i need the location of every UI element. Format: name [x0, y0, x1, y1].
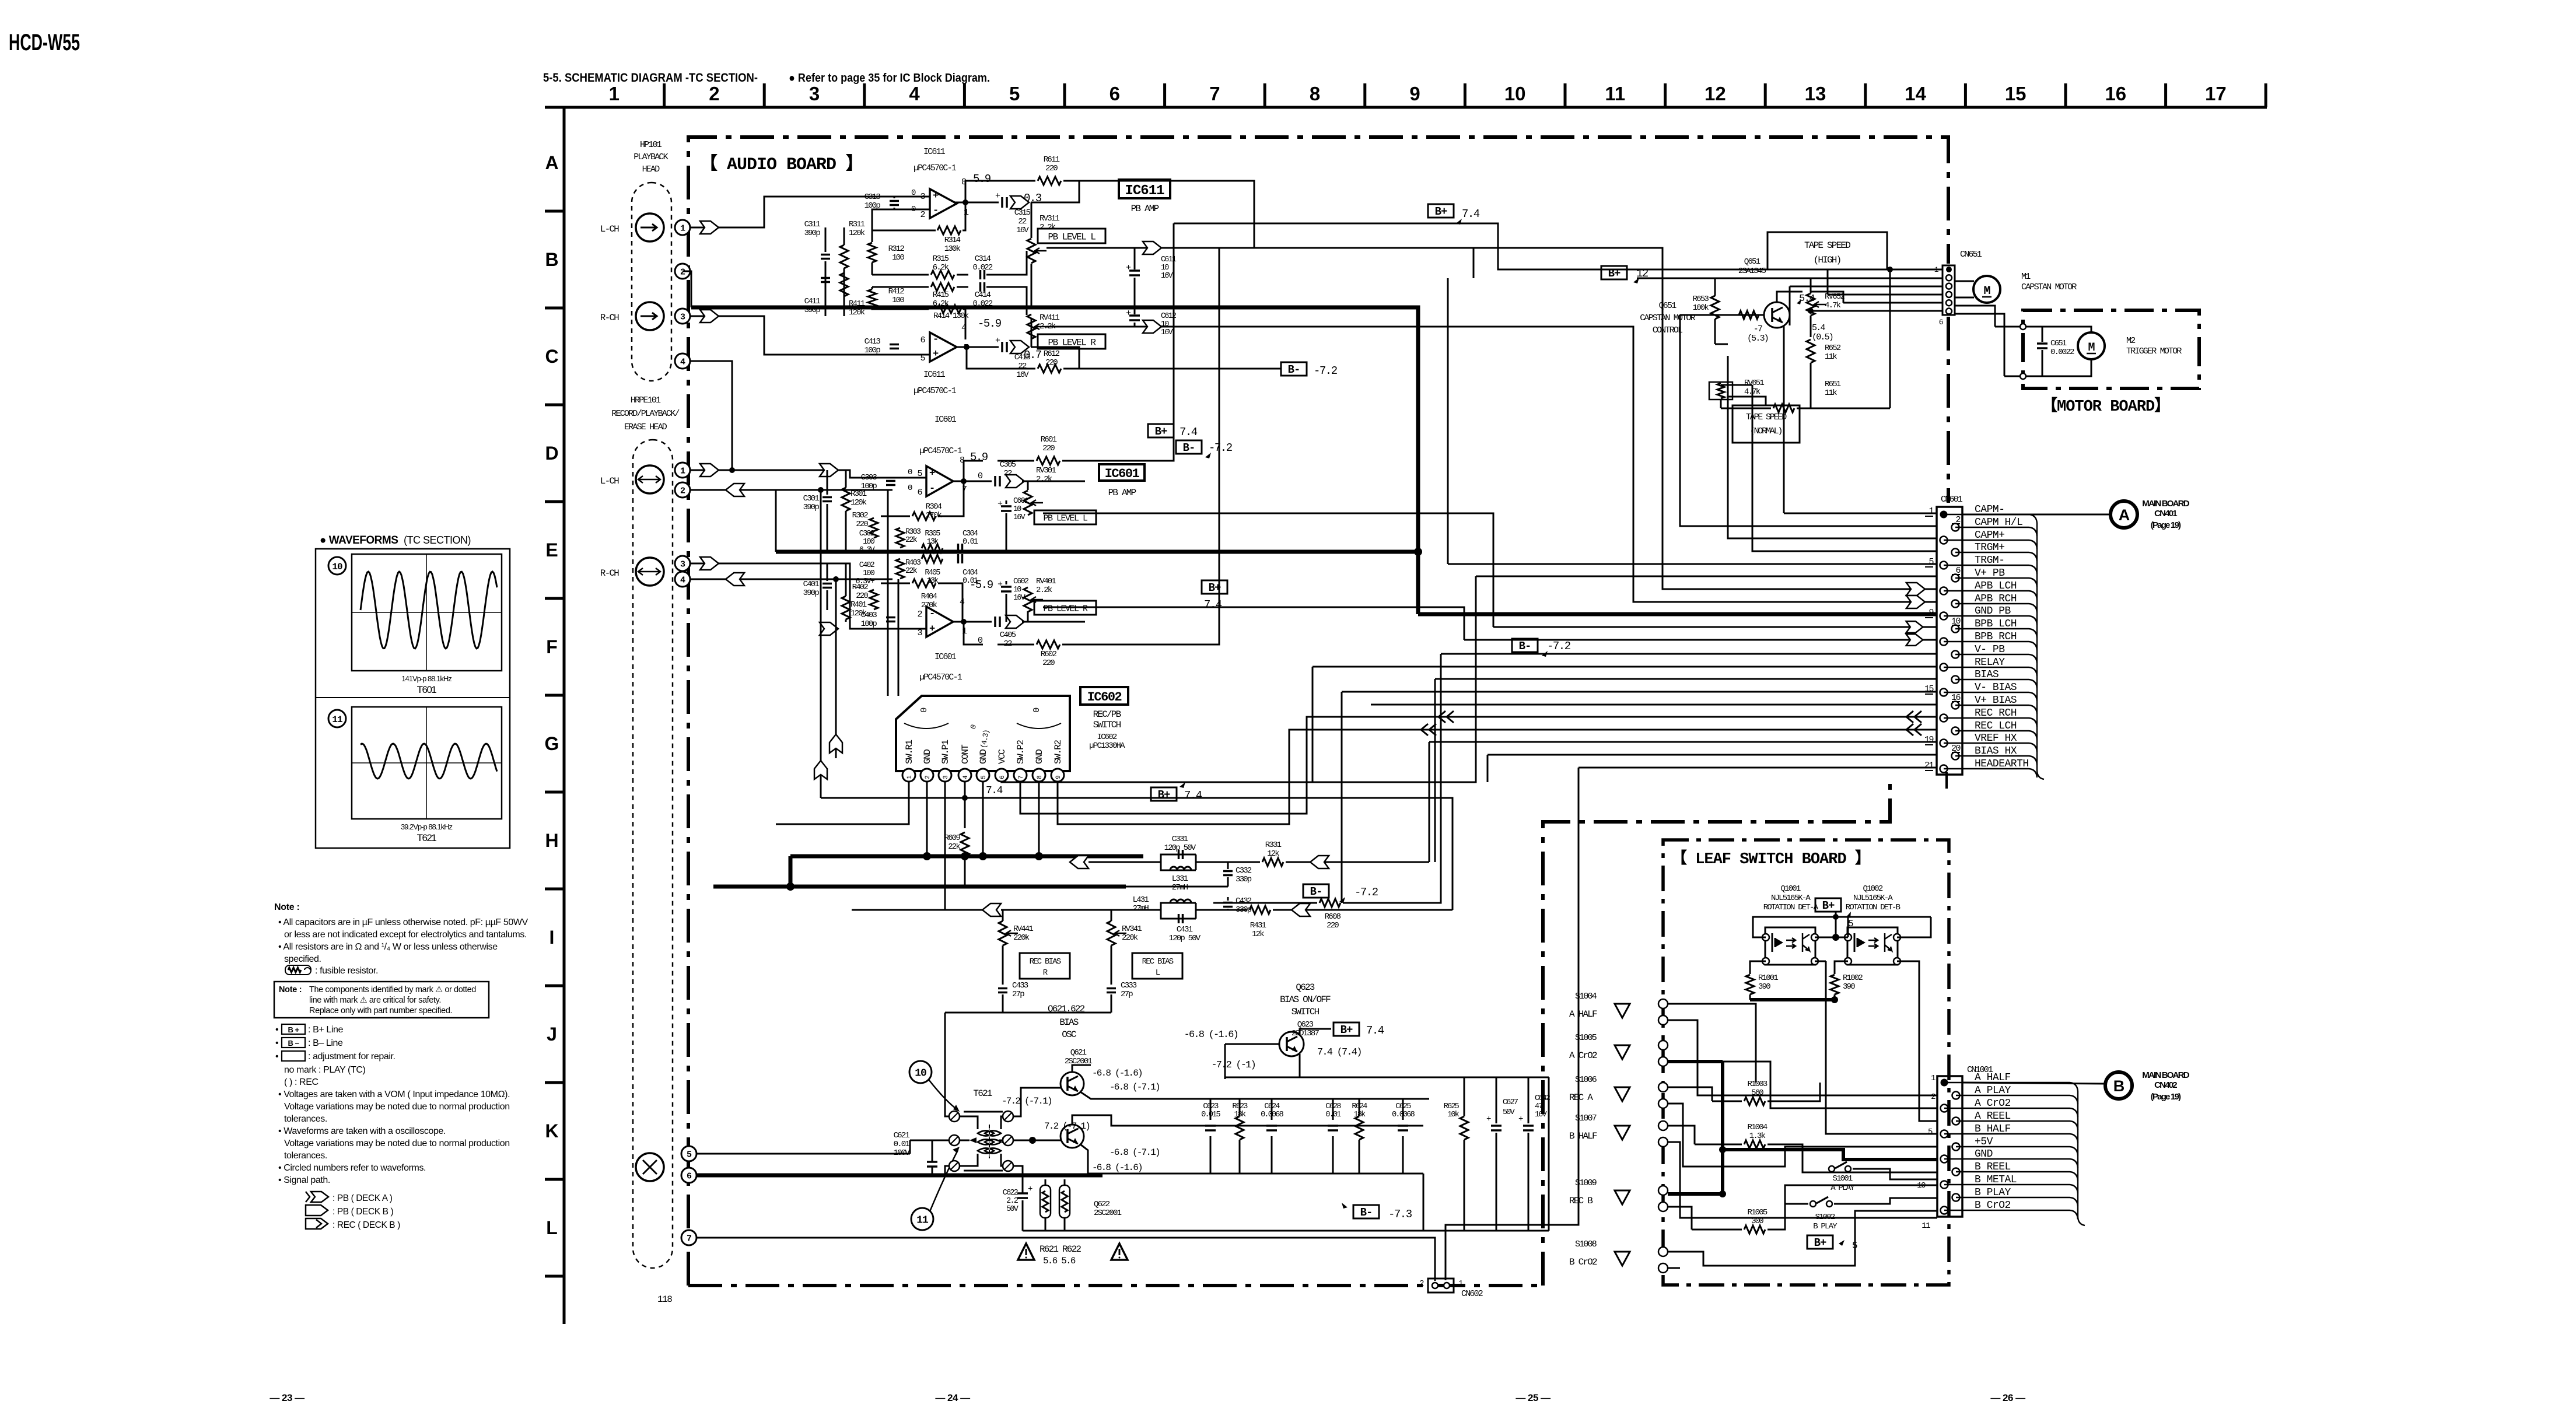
- connector CN1001 pins and labels: [1941, 1079, 1948, 1087]
- svg-text:L-CH: L-CH: [600, 476, 619, 486]
- svg-text:【 LEAF SWITCH BOARD 】: 【 LEAF SWITCH BOARD 】: [1671, 849, 1870, 868]
- svg-text:: REC ( DECK B ): : REC ( DECK B ): [332, 1220, 400, 1230]
- svg-text:+: +: [998, 499, 1003, 509]
- resistor R652: [1807, 339, 1815, 363]
- svg-text:S1004: S1004: [1575, 992, 1597, 1001]
- svg-text:10: 10: [1161, 320, 1169, 329]
- svg-text:R414 130k: R414 130k: [933, 311, 969, 321]
- svg-text:tolerances.: tolerances.: [284, 1151, 327, 1161]
- resistor R608: [1213, 902, 1317, 904]
- svg-text:TRIGGER MOTOR: TRIGGER MOTOR: [2126, 346, 2182, 356]
- svg-text:16V: 16V: [1016, 226, 1029, 235]
- potentiometer RV441: [999, 921, 1007, 945]
- resistor R315 capacitor C314 feedback 2: [872, 274, 929, 276]
- signal path symbols: [306, 1192, 328, 1202]
- svg-text:0.01: 0.01: [963, 538, 978, 547]
- capacitor C315: [1001, 197, 1003, 208]
- Q622 wires: [1044, 1140, 1060, 1141]
- svg-text:18k: 18k: [1354, 1111, 1366, 1119]
- waveforms outer box: [316, 549, 510, 848]
- svg-text:+: +: [995, 191, 1000, 201]
- wire R-CH input: [690, 316, 930, 355]
- wires into CN651: [1637, 278, 1943, 279]
- svg-text:220k: 220k: [1122, 933, 1138, 943]
- svg-text:-: -: [933, 205, 939, 216]
- resistor R653: [1711, 296, 1719, 319]
- svg-text:B: B: [545, 249, 558, 270]
- wire RV311 wiper line to APB LCH: [1046, 248, 1937, 589]
- svg-text:4: 4: [680, 357, 685, 367]
- svg-text:C624: C624: [1264, 1102, 1280, 1111]
- svg-text:B+: B+: [1608, 267, 1620, 280]
- svg-text:390p: 390p: [803, 589, 820, 598]
- svg-text:1: 1: [609, 83, 619, 104]
- svg-text:Note :: Note :: [279, 985, 302, 994]
- svg-text:11: 11: [1922, 1221, 1930, 1231]
- svg-text:H: H: [545, 830, 558, 851]
- signal arrow L-CH IC601: [700, 464, 719, 477]
- svg-text:15: 15: [2005, 83, 2027, 104]
- svg-text:SW.P1: SW.P1: [940, 740, 951, 764]
- svg-text:L431: L431: [1133, 895, 1149, 905]
- svg-text:390: 390: [1758, 982, 1770, 992]
- svg-text:M2: M2: [2126, 336, 2135, 346]
- svg-text:•: •: [275, 1052, 278, 1062]
- resistor R404: [881, 583, 910, 584]
- PB LEVEL R box IC601: [1034, 601, 1096, 615]
- svg-text:10: 10: [915, 1067, 926, 1079]
- svg-text:220: 220: [856, 591, 868, 601]
- wire R602 bottom loop: [964, 622, 983, 645]
- resistor R331: [1228, 861, 1260, 863]
- svg-text:C402: C402: [859, 561, 875, 570]
- svg-text:47: 47: [1535, 1102, 1543, 1111]
- svg-text:-5.9: -5.9: [978, 317, 1002, 330]
- svg-text:-6.8 (-1.6): -6.8 (-1.6): [1092, 1162, 1142, 1173]
- svg-text:— 25 —: — 25 —: [1515, 1392, 1550, 1403]
- warning triangle right: [1111, 1244, 1128, 1260]
- capacitor C602: [1001, 586, 1012, 588]
- potentiometer RV651: [1709, 382, 1732, 400]
- svg-text:100p: 100p: [861, 619, 877, 629]
- svg-text:B-: B-: [1519, 640, 1531, 653]
- svg-text:6: 6: [999, 776, 1006, 779]
- svg-text:C405: C405: [1000, 631, 1016, 640]
- svg-text:R624: R624: [1352, 1102, 1367, 1111]
- optocoupler Q1002: [1847, 927, 1898, 965]
- svg-text:+: +: [1126, 263, 1131, 273]
- svg-text:A: A: [2119, 506, 2130, 524]
- svg-text:C404: C404: [963, 569, 978, 577]
- svg-text:: adjustment for repair.: : adjustment for repair.: [308, 1052, 395, 1062]
- svg-text:ERASE HEAD: ERASE HEAD: [624, 422, 667, 432]
- svg-text:11: 11: [1605, 83, 1625, 104]
- wire R-CH input IC601: [690, 563, 926, 629]
- capacitor C415: [1001, 342, 1003, 352]
- svg-text:16V: 16V: [1016, 370, 1029, 380]
- capacitor C601: [1001, 505, 1012, 507]
- wire tape speed normal: [1728, 356, 1766, 405]
- svg-text:2: 2: [680, 267, 685, 277]
- svg-text:+: +: [1486, 1115, 1491, 1124]
- capacitor C311: [825, 227, 827, 252]
- svg-text:16V: 16V: [1013, 513, 1026, 522]
- svg-text:1: 1: [680, 466, 685, 476]
- capacitor C403: [886, 617, 895, 619]
- B+ label IC601: [1148, 424, 1174, 437]
- op-amp IC611b: [930, 332, 957, 362]
- capacitor C612: [1129, 314, 1140, 317]
- signal arrow after C405: [1006, 615, 1024, 628]
- svg-text:BIAS: BIAS: [1059, 1017, 1078, 1028]
- svg-text:S1008: S1008: [1575, 1239, 1597, 1249]
- svg-text:-7.3: -7.3: [1388, 1208, 1412, 1221]
- svg-text:130k: 130k: [944, 244, 961, 254]
- svg-text:PB AMP: PB AMP: [1108, 488, 1136, 498]
- svg-text:【MOTOR BOARD】: 【MOTOR BOARD】: [2042, 397, 2169, 416]
- PB LEVEL L box: [1038, 229, 1105, 243]
- svg-text:: B– Line: : B– Line: [308, 1038, 343, 1048]
- resistor R414 feedback: [871, 287, 873, 289]
- wire BIAS HX pin20: [1487, 754, 1937, 756]
- svg-text:R312: R312: [888, 244, 905, 254]
- head HRPE101 pin 7: [681, 1230, 696, 1245]
- svg-text:SW.P2: SW.P2: [1016, 740, 1026, 764]
- svg-text:A HALF: A HALF: [1569, 1009, 1597, 1020]
- svg-text:C303: C303: [861, 473, 877, 482]
- head HP101 pin 4: [675, 353, 690, 369]
- svg-text:RV651: RV651: [1744, 379, 1764, 388]
- svg-text:-7.2: -7.2: [1354, 886, 1378, 899]
- svg-text:-6.8 (-7.1): -6.8 (-7.1): [1109, 1147, 1160, 1158]
- wire BPB LCH pin10: [1493, 626, 1937, 628]
- signal arrow after C315: [1010, 196, 1029, 209]
- svg-text:B HALF: B HALF: [1569, 1131, 1597, 1141]
- svg-text:R1001: R1001: [1758, 973, 1778, 983]
- svg-text:0: 0: [908, 468, 912, 477]
- wire R612 bottom loop: [967, 347, 1035, 369]
- svg-text:R412: R412: [888, 287, 905, 296]
- svg-text:R612: R612: [1044, 349, 1060, 359]
- svg-text:120p 50V: 120p 50V: [1169, 934, 1201, 943]
- svg-text:2: 2: [680, 486, 685, 496]
- svg-text:C403: C403: [861, 611, 877, 620]
- wire op-amp2 output: [955, 346, 999, 348]
- connector CN651 pins: [1946, 267, 1952, 272]
- svg-text:CONT: CONT: [960, 745, 971, 764]
- svg-text:560: 560: [1751, 1088, 1763, 1098]
- capacitor C405: [994, 617, 996, 627]
- svg-text:1.3k: 1.3k: [1749, 1132, 1766, 1141]
- svg-text:9: 9: [1409, 83, 1420, 104]
- svg-text:R625: R625: [1444, 1102, 1459, 1111]
- wire APB LCH arrow near CN601: [1906, 583, 1925, 596]
- bias mid rail q623: [1225, 1077, 1549, 1078]
- svg-text:IC601: IC601: [1105, 467, 1140, 481]
- svg-text:Replace only with part number: Replace only with part number specified.: [309, 1006, 452, 1015]
- T621 terminal wires: [945, 1013, 949, 1116]
- svg-text:390p: 390p: [804, 229, 821, 238]
- svg-text:R652: R652: [1825, 344, 1841, 353]
- svg-text:19: 19: [1924, 735, 1934, 745]
- svg-text:R402: R402: [852, 583, 869, 592]
- connector CN1001 body: [1937, 1076, 1962, 1217]
- rec verticals into IC602: [887, 490, 889, 696]
- svg-text:● WAVEFORMS: ● WAVEFORMS: [320, 534, 398, 547]
- svg-text:R415: R415: [933, 290, 949, 300]
- capacitor C333: [1107, 987, 1116, 990]
- svg-text:3: 3: [809, 83, 820, 104]
- svg-text:220k: 220k: [1013, 933, 1030, 943]
- R625 C627 C642 network: [1464, 1077, 1465, 1116]
- B- -7.2 label: [1303, 884, 1329, 898]
- svg-text:-: -: [929, 484, 935, 495]
- B- -7.2 label near R602: [1176, 440, 1202, 454]
- filter L431 C431 row: [982, 903, 1001, 916]
- svg-text:R304: R304: [926, 502, 942, 512]
- svg-text:no mark : PLAY (TC): no mark : PLAY (TC): [284, 1065, 365, 1075]
- svg-text:Q1002: Q1002: [1863, 884, 1882, 894]
- svg-text:1: 1: [1931, 1074, 1936, 1083]
- transistor Q651: [1764, 302, 1790, 328]
- svg-text:PB AMP: PB AMP: [1131, 204, 1159, 214]
- svg-text:OSC: OSC: [1062, 1029, 1076, 1040]
- wire HEADEARTH pin21: [1578, 767, 1937, 769]
- svg-text:: B+ Line: : B+ Line: [308, 1025, 344, 1035]
- svg-text:10: 10: [1917, 1181, 1926, 1190]
- B+ 12 label: [1601, 266, 1627, 279]
- svg-text:100k: 100k: [1693, 303, 1709, 313]
- wire RV401 wiper to BPB RCH: [1043, 607, 1464, 640]
- svg-text:10: 10: [1161, 264, 1169, 272]
- svg-text:5: 5: [1852, 1241, 1857, 1251]
- PB LEVEL L box IC601: [1034, 510, 1096, 524]
- svg-text:0.0068: 0.0068: [1261, 1111, 1284, 1119]
- capacitor C433: [998, 987, 1007, 990]
- head HP101 pin 2: [675, 264, 690, 279]
- svg-text:5: 5: [981, 776, 988, 779]
- svg-text:-7: -7: [1753, 324, 1762, 334]
- svg-text:4.7k: 4.7k: [1825, 301, 1841, 310]
- op-amp IC601b: [926, 607, 953, 637]
- svg-text:+: +: [1518, 1115, 1523, 1124]
- wire BPB RCH pin11: [1464, 639, 1937, 641]
- wire head pin7 earth: [696, 1238, 1435, 1281]
- svg-text:( ) : REC: ( ) : REC: [284, 1077, 318, 1087]
- svg-text:C413: C413: [864, 337, 881, 346]
- wire rail2 to CN651 pin2: [1219, 248, 1473, 278]
- svg-text:RV311: RV311: [1039, 214, 1059, 223]
- svg-text:-6.8 (-1.6): -6.8 (-1.6): [1092, 1068, 1142, 1078]
- svg-text:C315: C315: [1014, 208, 1031, 218]
- svg-text:R653: R653: [1693, 295, 1709, 304]
- signal arrow after C305: [1006, 475, 1024, 488]
- svg-text:4: 4: [909, 83, 920, 104]
- connector CN602: [1428, 1279, 1454, 1293]
- capacitor C313: [890, 200, 899, 202]
- head HRPE101 pin 4: [675, 572, 690, 587]
- wire inverting input: [872, 209, 930, 230]
- resistor R411: [843, 292, 845, 316]
- wire CAPM- to pin1: [1784, 513, 1937, 514]
- svg-text:C: C: [545, 346, 558, 367]
- svg-text:REC/PB: REC/PB: [1093, 709, 1121, 720]
- wire RV301 wiper to BPB LCH: [1043, 513, 1493, 627]
- adjustment note: [282, 1051, 305, 1061]
- svg-text:50V: 50V: [1503, 1108, 1515, 1117]
- svg-text:22: 22: [1018, 362, 1027, 371]
- svg-text:CN401: CN401: [2154, 509, 2177, 519]
- wire C315 output east: [1031, 181, 1079, 202]
- svg-text:2.2k: 2.2k: [1036, 586, 1052, 595]
- resistor R1005: [1744, 1225, 1765, 1234]
- svg-text:2: 2: [709, 83, 719, 104]
- wire L-CH input to op-amp: [690, 197, 930, 227]
- thick bias rail: [713, 885, 1126, 889]
- signal arrow after C415: [1010, 341, 1029, 353]
- svg-text:100: 100: [892, 296, 904, 305]
- svg-text:7.2 (-7.1): 7.2 (-7.1): [1044, 1121, 1090, 1132]
- svg-text:µPC4570C-1: µPC4570C-1: [919, 673, 963, 682]
- svg-text:2: 2: [925, 776, 932, 779]
- svg-text:R405: R405: [925, 569, 940, 577]
- wire CAPM H/L to pin2: [1680, 315, 1937, 526]
- svg-text:5: 5: [1009, 83, 1020, 104]
- B+ label near IC602: [1151, 787, 1177, 801]
- wire Q651 base: [1680, 314, 1764, 316]
- wire TRGM- to pin5: [1447, 278, 1449, 564]
- wire V+ PB to pin6: [1476, 576, 1937, 577]
- wire V- PB pin12: [1441, 653, 1937, 655]
- svg-text:2.2k: 2.2k: [1036, 475, 1052, 484]
- capacitor C305: [994, 476, 996, 486]
- REC BIAS L box: [1132, 953, 1182, 979]
- svg-text:R315: R315: [933, 254, 949, 264]
- IC602 pin drops: [776, 782, 909, 824]
- svg-text:B+: B+: [1158, 789, 1170, 801]
- svg-text:R311: R311: [849, 220, 865, 229]
- svg-text:R401: R401: [850, 600, 867, 610]
- svg-text:T601: T601: [417, 684, 437, 695]
- svg-text:R403: R403: [905, 559, 921, 568]
- svg-text:390: 390: [1843, 982, 1855, 992]
- svg-text:+: +: [995, 336, 1000, 346]
- svg-text:390p: 390p: [803, 503, 820, 512]
- svg-text:R621 R622: R621 R622: [1039, 1244, 1081, 1255]
- capacitor C413: [890, 344, 899, 346]
- svg-text:ROTATION DET-A: ROTATION DET-A: [1763, 903, 1819, 912]
- svg-text:C432: C432: [1235, 896, 1252, 906]
- opto ground rail: [1750, 998, 1835, 1001]
- svg-text:6.2k: 6.2k: [933, 263, 949, 272]
- svg-text:E: E: [545, 540, 558, 561]
- svg-text:16V: 16V: [1535, 1111, 1548, 1119]
- B+ label RV401: [1202, 580, 1227, 594]
- svg-text:RV401: RV401: [1036, 577, 1056, 586]
- svg-text:I: I: [549, 927, 555, 948]
- svg-text:17: 17: [2205, 83, 2227, 104]
- svg-text:GND: GND: [978, 749, 989, 764]
- svg-text:-: -: [929, 609, 935, 620]
- svg-text:2SC2001: 2SC2001: [1094, 1209, 1122, 1218]
- svg-text:27p: 27p: [1012, 990, 1024, 999]
- tape speed normal box: [1732, 405, 1800, 443]
- svg-text:C411: C411: [804, 297, 821, 306]
- svg-text:5.9: 5.9: [973, 173, 991, 185]
- Q621 wires: [1072, 1065, 1091, 1072]
- svg-text:T621: T621: [417, 832, 437, 843]
- svg-text:T621: T621: [973, 1088, 992, 1099]
- svg-text:• All capacitors are in µF unl: • All capacitors are in µF unless otherw…: [278, 917, 528, 927]
- svg-text:11k: 11k: [1825, 388, 1837, 398]
- wire C305 output east: [1022, 481, 1085, 482]
- svg-text:µPC4570C-1: µPC4570C-1: [919, 446, 963, 456]
- capacitor C411: [825, 284, 827, 316]
- head HRPE101 erase gap: [636, 1153, 664, 1181]
- svg-text:141Vp-p 88.1kHz: 141Vp-p 88.1kHz: [401, 674, 452, 683]
- svg-text:10: 10: [1504, 83, 1526, 104]
- svg-text:120k: 120k: [849, 229, 865, 238]
- svg-text:+: +: [1126, 309, 1131, 318]
- svg-text:16V: 16V: [1161, 272, 1174, 281]
- B+ leaf bottom: [1807, 1235, 1833, 1249]
- wire IC602 row 1368: [821, 798, 1452, 910]
- head HRPE101 outline: [633, 440, 673, 1268]
- svg-text:C431: C431: [1177, 925, 1193, 934]
- svg-text:100: 100: [892, 253, 904, 262]
- wire B+ vertical to R601: [1173, 223, 1175, 461]
- svg-text:C313: C313: [864, 192, 881, 202]
- signal arrow PB deck A L: [700, 221, 719, 234]
- svg-text:220: 220: [1042, 659, 1055, 668]
- opto wiring top: [1753, 917, 1931, 937]
- svg-text:-: -: [933, 334, 939, 345]
- svg-text:R651: R651: [1825, 380, 1841, 389]
- PB LEVEL R box: [1038, 334, 1105, 349]
- waveform ref 10: [909, 1061, 932, 1083]
- wire RELAY pin13: [1312, 666, 1937, 668]
- svg-text:5.9: 5.9: [970, 451, 988, 464]
- svg-text:R331: R331: [1265, 840, 1282, 850]
- svg-text:220: 220: [1045, 164, 1058, 173]
- head HRPE101 L-CH gap: [636, 465, 664, 493]
- warning triangle left: [1018, 1244, 1034, 1260]
- capacitor C432: [1227, 897, 1229, 901]
- svg-text:2: 2: [920, 210, 925, 220]
- svg-text:C628: C628: [1325, 1102, 1341, 1111]
- B- -7.2 label mid: [1512, 639, 1538, 652]
- svg-text:D: D: [545, 443, 558, 464]
- head HRPE101 pin 5: [681, 1146, 696, 1161]
- svg-text:7.4: 7.4: [1179, 426, 1198, 439]
- svg-text:L: L: [546, 1217, 558, 1238]
- head HRPE101 pin 2: [675, 482, 690, 498]
- svg-text:VCC: VCC: [997, 749, 1007, 764]
- svg-text:REC B: REC B: [1569, 1196, 1592, 1206]
- svg-text:Q651: Q651: [1744, 257, 1760, 267]
- svg-text:120k: 120k: [850, 498, 867, 507]
- svg-text:IC601: IC601: [935, 415, 957, 425]
- svg-text:RECORD/PLAYBACK/: RECORD/PLAYBACK/: [611, 409, 680, 419]
- resistor R1001: [1750, 961, 1766, 974]
- capacitor C651: [2042, 327, 2043, 342]
- svg-text:RV441: RV441: [1013, 924, 1033, 934]
- svg-text:+: +: [1028, 1185, 1032, 1194]
- potentiometer RV341: [1107, 921, 1115, 945]
- svg-text:J: J: [547, 1024, 557, 1045]
- svg-text:S1001: S1001: [1832, 1174, 1852, 1183]
- svg-text:13k: 13k: [927, 538, 939, 547]
